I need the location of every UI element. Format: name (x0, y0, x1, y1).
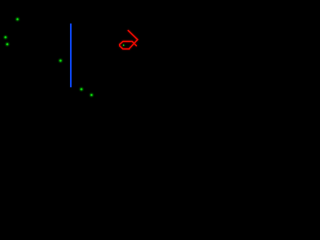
food pellet 6 (90, 93, 93, 96)
food pellet 1 (16, 18, 19, 21)
food pellet 3 (6, 43, 9, 46)
food pellet 5 (80, 88, 83, 91)
head outline: bottom, left, top edge, mouth diagonal (120, 41, 137, 49)
background (0, 0, 160, 120)
food pellet 4 (59, 59, 62, 62)
upper jaw line to snout tip (128, 31, 137, 40)
food pellet 2 (4, 36, 7, 39)
blue wall / trail line (69, 24, 72, 88)
lower jaw long diagonal (129, 40, 137, 49)
snake eye (green) (123, 44, 125, 46)
snake head with open mouth (red outline) (120, 31, 138, 49)
